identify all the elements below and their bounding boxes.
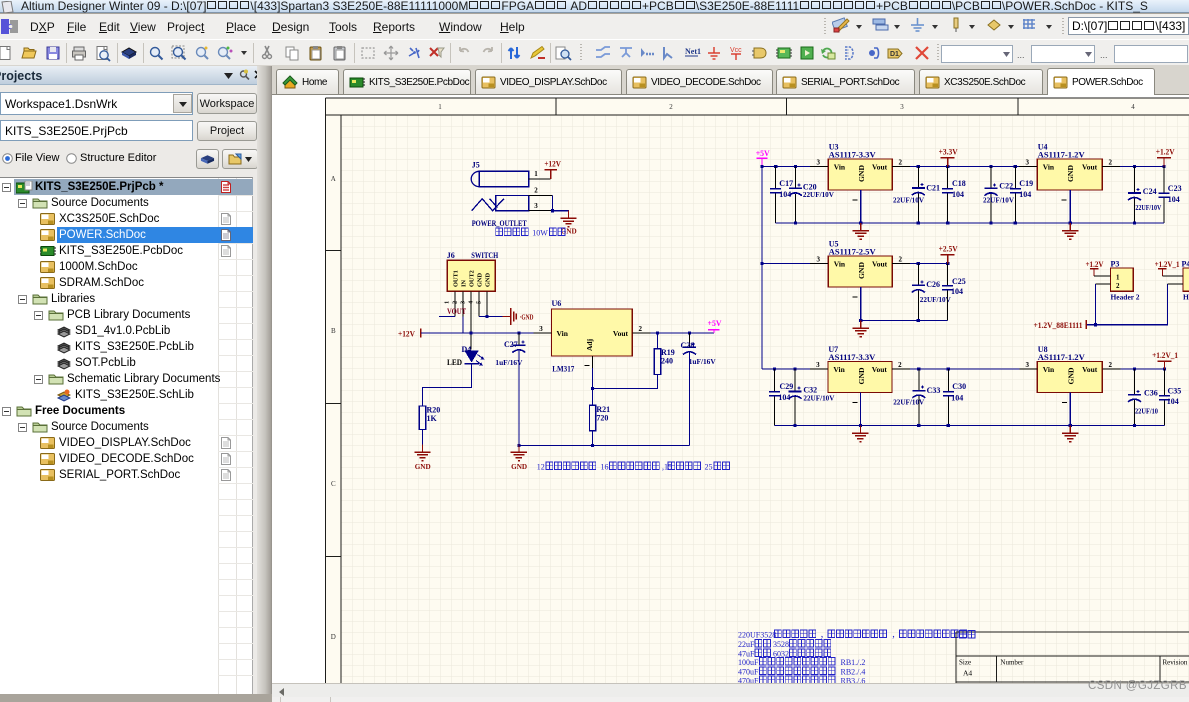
svg-text:LM317: LM317 (552, 365, 574, 374)
svg-text:GND: GND (1066, 164, 1075, 182)
power port +12V feeding rail (398, 328, 421, 338)
svg-text:C: C (331, 480, 336, 488)
connector J5 POWER_OUTLET (471, 171, 529, 210)
wire R19 to adj (593, 374, 658, 388)
designator J5 (472, 161, 480, 170)
svg-text:104: 104 (951, 287, 963, 296)
svg-text:1uF/16V: 1uF/16V (689, 357, 717, 366)
sheet background (326, 98, 1189, 686)
wire R20 to ground (422, 430, 424, 453)
power port +1.2V at P3 (1086, 260, 1104, 276)
power port +1.2V_1 at P4 (1155, 260, 1180, 276)
svg-text:2: 2 (1116, 282, 1120, 290)
svg-text:220UF3528: 220UF3528 (738, 631, 776, 640)
svg-text:22uF: 22uF (738, 640, 755, 649)
wire U7 input rail (762, 367, 810, 370)
power port +1.2V_1 (1152, 351, 1178, 369)
sheet border frame (326, 98, 1189, 684)
sheet zone labels (331, 103, 1135, 641)
svg-text:AS1117-3.3V: AS1117-3.3V (829, 151, 876, 160)
wire U3 output rail (910, 165, 1019, 168)
wire U8 output rail (1120, 367, 1166, 370)
svg-text:Vin: Vin (834, 162, 846, 171)
P4 pin 1 (1162, 275, 1183, 277)
svg-text:VOUT: VOUT (447, 307, 467, 316)
resistor R21 (589, 405, 610, 431)
power port +1.2V (1156, 148, 1175, 167)
regulator U5 AS1117-2.5V (810, 240, 910, 298)
capacitor C24 (1128, 167, 1162, 224)
svg-text:100uF: 100uF (738, 658, 759, 667)
svg-text:J6: J6 (447, 251, 455, 260)
ground below U3 (853, 223, 869, 239)
net label VOUT (447, 307, 467, 316)
wire U3 ground pin (860, 190, 862, 223)
svg-text:，: ， (892, 631, 900, 640)
svg-text:104: 104 (1167, 397, 1179, 406)
svg-text:RB2./.4: RB2./.4 (841, 668, 866, 677)
svg-text:2: 2 (898, 158, 902, 166)
svg-text:2: 2 (1108, 158, 1112, 166)
capacitor C28 (681, 333, 717, 366)
svg-text:4: 4 (1131, 103, 1135, 111)
wire +12V rail to U6 (421, 331, 534, 334)
svg-text:22UF/10V: 22UF/10V (920, 295, 952, 304)
svg-text:+12V: +12V (398, 330, 415, 339)
svg-text:A4: A4 (963, 669, 972, 678)
capacitor C19 (1010, 167, 1033, 224)
ground at C27 (511, 445, 528, 472)
wire P3 pin2 to +1.2V_88E1111 net (1086, 284, 1167, 326)
svg-text:Vin: Vin (1043, 162, 1055, 171)
svg-text:C25: C25 (952, 277, 966, 286)
svg-text:Vout: Vout (872, 259, 888, 268)
svg-text:104: 104 (1168, 195, 1180, 204)
svg-text:5: 5 (476, 301, 483, 304)
svg-text:+12V: +12V (544, 159, 561, 168)
svg-text:3: 3 (816, 158, 820, 166)
svg-text:RB1./.2: RB1./.2 (841, 658, 866, 667)
annotation 12伏电压应该用16伏耐压的电容,15伏应选择25伏的 (537, 462, 730, 472)
svg-text:GND: GND (485, 273, 492, 287)
wire bottom rail of U6 section (519, 444, 690, 447)
regulator U3 AS1117-3.3V (810, 143, 910, 201)
svg-text:2: 2 (1109, 361, 1113, 369)
comment LED (447, 358, 462, 367)
J6 pin 4 (468, 292, 480, 317)
svg-text:GND: GND (857, 367, 866, 385)
svg-text:C21: C21 (926, 184, 940, 193)
svg-text:2: 2 (639, 325, 643, 333)
svg-text:GND: GND (1066, 367, 1075, 385)
svg-text:Adj: Adj (585, 338, 594, 351)
ground at R20 (414, 445, 431, 472)
J6 pin 1 (444, 292, 456, 317)
wire U6 output to +5V (650, 331, 714, 334)
svg-text:AS1117-3.3V: AS1117-3.3V (828, 353, 875, 362)
svg-text:，: ， (820, 631, 828, 640)
capacitor C27 (495, 333, 525, 367)
capacitor C17 (770, 167, 793, 224)
capacitor C33 (893, 369, 940, 426)
capacitor C25 (942, 264, 966, 321)
ground below U4 (1062, 223, 1078, 239)
svg-text:+1.2V_1: +1.2V_1 (1152, 351, 1178, 360)
svg-text:U6: U6 (552, 299, 562, 308)
svg-text:+5V: +5V (756, 149, 770, 158)
svg-text:3: 3 (1026, 361, 1030, 369)
capacitor C22 (983, 167, 1015, 224)
J5 pin 2 (529, 187, 553, 196)
designator J6 (447, 251, 455, 260)
power port +12V at J5 pin 1 (544, 159, 561, 179)
svg-text:B: B (331, 327, 336, 335)
connector P4 Header 2 (1182, 260, 1189, 302)
svg-text:A: A (331, 175, 336, 183)
svg-text:+1.2V_1: +1.2V_1 (1155, 260, 1180, 269)
wire row3 bottom rail (775, 424, 1165, 427)
regulator U6 LM317 (552, 299, 633, 374)
svg-text:C17: C17 (779, 179, 793, 188)
title block labels (959, 631, 1188, 678)
svg-text:3528: 3528 (773, 640, 789, 649)
capacitor C32 (789, 369, 835, 426)
connector J6 SWITCH (447, 260, 495, 291)
svg-text:P3: P3 (1111, 260, 1120, 269)
svg-text:LED: LED (447, 358, 462, 367)
svg-text:C18: C18 (952, 179, 966, 188)
svg-text:GND: GND (857, 261, 866, 279)
wire J5 pin2 to pin3 (551, 196, 554, 213)
svg-text:104: 104 (1019, 190, 1031, 199)
svg-text:Vout: Vout (1082, 162, 1098, 171)
wire adj down to R21 (591, 368, 594, 405)
ground below U5 (853, 321, 869, 337)
wire LED to R20 (423, 364, 472, 407)
svg-text:Revision: Revision (1163, 659, 1188, 667)
svg-text:C24: C24 (1143, 187, 1157, 196)
svg-text:Vcc: Vcc (730, 47, 742, 54)
svg-text:Vin: Vin (834, 259, 846, 268)
capacitor C36 (1128, 369, 1158, 426)
designator D4 (462, 345, 472, 354)
J6 pin 5 (476, 292, 488, 317)
ground at J5 (560, 211, 577, 236)
capacitor C26 (912, 264, 952, 321)
svg-text:2: 2 (534, 187, 538, 195)
svg-text:·GND: ·GND (520, 313, 534, 322)
svg-text:25: 25 (705, 463, 713, 472)
svg-text:AS1117-1.2V: AS1117-1.2V (1038, 151, 1085, 160)
svg-text:Vout: Vout (613, 329, 629, 338)
svg-text:Size: Size (959, 659, 971, 667)
ground below U7 (852, 426, 868, 442)
svg-text:P4: P4 (1182, 260, 1189, 269)
resistor R19 (654, 333, 675, 374)
power port +5V main feed (756, 149, 770, 166)
svg-text:3: 3 (460, 301, 467, 304)
regulator U8 AS1117-1.2V (1019, 345, 1120, 403)
svg-text:22UF/10V: 22UF/10V (893, 398, 925, 407)
capacitor C30 (943, 369, 966, 426)
svg-text:+2.5V: +2.5V (939, 245, 958, 254)
capacitor C21 (893, 167, 940, 224)
svg-text:22UF/10V: 22UF/10V (803, 394, 835, 403)
svg-text:2: 2 (898, 255, 902, 263)
svg-text:16: 16 (601, 463, 609, 472)
svg-text:D: D (331, 633, 336, 641)
svg-text:240: 240 (661, 357, 673, 366)
power port +3.3V (939, 148, 958, 167)
capacitor C18 (942, 167, 966, 224)
svg-text:2: 2 (452, 301, 459, 304)
svg-text:+3.3V: +3.3V (939, 148, 958, 157)
power port +2.5V (939, 245, 958, 264)
svg-text:Vin: Vin (557, 329, 569, 338)
svg-text:12: 12 (537, 463, 545, 472)
resistor R20 (419, 406, 440, 430)
wire U4 ground pin (1069, 190, 1071, 223)
svg-text:C28: C28 (681, 341, 695, 350)
J5 pin 3 (529, 202, 553, 211)
svg-text:1: 1 (444, 301, 451, 304)
svg-text:Vin: Vin (1043, 365, 1055, 374)
svg-text:3: 3 (539, 325, 543, 333)
wire U3 input rail (762, 165, 810, 168)
wire U7 ground pin (859, 393, 861, 426)
annotation capacitor footprint notes (738, 630, 967, 686)
U6 pin 2 (632, 325, 650, 333)
power port +5V at U6 output (708, 319, 722, 333)
svg-text:720: 720 (596, 414, 608, 423)
wire U5 ground pin (860, 287, 862, 321)
LED D4 (464, 351, 484, 366)
svg-text:104: 104 (952, 190, 964, 199)
svg-text:+5V: +5V (708, 319, 722, 328)
svg-text:C26: C26 (926, 280, 940, 289)
wire +5V vertical distribution (760, 165, 763, 369)
svg-text:Number: Number (1000, 659, 1024, 667)
wire C28 to bottom rail (689, 353, 691, 446)
U6 adj pin 1 (585, 356, 593, 368)
svg-text:He: He (1183, 293, 1189, 302)
svg-text:22UF/10: 22UF/10 (1135, 407, 1158, 416)
svg-text:C27: C27 (504, 340, 518, 349)
wire J6 pin2 down to +12V rail (462, 317, 464, 334)
wire U4 output rail (1120, 165, 1165, 168)
svg-text:2: 2 (669, 103, 673, 111)
svg-text:104: 104 (951, 394, 963, 403)
svg-text:D4: D4 (462, 345, 472, 354)
svg-text:1: 1 (438, 103, 442, 111)
svg-text:Vout: Vout (872, 365, 888, 374)
capacitor C35 (1159, 369, 1181, 426)
J5 pin 1 (529, 170, 551, 179)
wire U5 input rail (762, 263, 810, 265)
svg-text:C29: C29 (780, 382, 794, 391)
U6 pin 3 (534, 325, 552, 333)
svg-text:OUT2: OUT2 (469, 270, 476, 287)
svg-text:3: 3 (534, 202, 538, 210)
svg-text:3: 3 (816, 361, 820, 369)
svg-text:104: 104 (778, 393, 790, 402)
bar-style power ground GND at J6 (503, 308, 534, 325)
svg-text:3: 3 (1025, 158, 1029, 166)
wire J5 pin3 to ground (553, 211, 569, 218)
svg-text:1K: 1K (427, 414, 438, 423)
annotation 电源接度 10W以上 (496, 228, 565, 238)
svg-text:10W: 10W (532, 229, 548, 238)
wire C27 to ground and bottom rail (517, 351, 520, 452)
svg-text:GND: GND (511, 462, 528, 471)
regulator U7 AS1117-3.3V (810, 345, 910, 403)
svg-text:22UF/10V: 22UF/10V (803, 190, 835, 199)
svg-text:AS1117-2.5V: AS1117-2.5V (829, 248, 876, 257)
J6 pin 2 (452, 292, 464, 317)
svg-text:J5: J5 (472, 161, 480, 170)
svg-text:C23: C23 (1168, 184, 1182, 193)
svg-text:Header 2: Header 2 (1111, 293, 1140, 302)
svg-text:+1.2V: +1.2V (1156, 148, 1175, 157)
P3 pin 2 (1096, 283, 1111, 285)
svg-text:GND: GND (857, 164, 866, 182)
comment POWER_OUTLET (472, 219, 528, 228)
capacitor C20 (789, 167, 835, 224)
svg-text:D1: D1 (890, 51, 899, 58)
svg-text:1: 1 (534, 170, 538, 178)
wire row1 bottom rail (776, 221, 1164, 224)
J6 pin 3 (460, 292, 472, 350)
svg-text:C30: C30 (952, 382, 966, 391)
svg-text:Net1: Net1 (685, 47, 701, 56)
svg-text:Vout: Vout (1082, 365, 1098, 374)
svg-text:2: 2 (898, 361, 902, 369)
svg-text:470uF: 470uF (738, 668, 759, 677)
svg-text:IN: IN (461, 280, 468, 287)
capacitor C23 (1159, 167, 1182, 224)
svg-text:Vin: Vin (833, 365, 845, 374)
wire R21 to bottom rail (592, 431, 594, 446)
svg-text:C36: C36 (1144, 389, 1158, 398)
svg-text:AS1117-1.2V: AS1117-1.2V (1038, 353, 1085, 362)
svg-text:GND: GND (415, 462, 432, 471)
svg-text:GND: GND (477, 273, 484, 287)
capacitor C29 (769, 369, 793, 426)
svg-text:C35: C35 (1168, 387, 1182, 396)
svg-text:Vout: Vout (872, 162, 888, 171)
svg-text:+1.2V: +1.2V (1086, 260, 1104, 269)
ground below U8 (1062, 426, 1078, 442)
svg-text:22UF/10V: 22UF/10V (893, 196, 925, 205)
wire U8 ground pin (1069, 393, 1071, 426)
svg-text:1: 1 (1116, 273, 1120, 281)
power port +1.2V_88E1111 (1034, 320, 1087, 330)
P3 pin 1 (1094, 275, 1111, 277)
svg-text:22UF/10V: 22UF/10V (983, 196, 1015, 205)
svg-text:C33: C33 (927, 386, 941, 395)
wire J6 pins 4,5 to bar ground (479, 315, 503, 318)
connector P3 Header 2 (1111, 260, 1140, 302)
wire U5 output rail (910, 262, 949, 265)
P4 pin 2 (1167, 283, 1183, 285)
svg-text:OUT1: OUT1 (453, 270, 460, 287)
svg-text:SWITCH: SWITCH (471, 251, 499, 260)
wire row2 bottom rail (859, 319, 948, 322)
title block (956, 632, 1189, 684)
svg-text:+1.2V_88E1111: +1.2V_88E1111 (1034, 321, 1083, 330)
svg-text:3: 3 (816, 255, 820, 263)
comment SWITCH (471, 251, 499, 260)
svg-text:C19: C19 (1019, 179, 1033, 188)
wire U7 output rail (910, 367, 1019, 370)
regulator U4 AS1117-1.2V (1019, 143, 1120, 201)
svg-text:3: 3 (900, 103, 904, 111)
svg-text:,15: ,15 (662, 463, 672, 472)
wire VOUT net (439, 316, 455, 318)
svg-text:22UF/10V: 22UF/10V (1135, 203, 1161, 212)
svg-text:POWER_OUTLET: POWER_OUTLET (472, 219, 528, 228)
